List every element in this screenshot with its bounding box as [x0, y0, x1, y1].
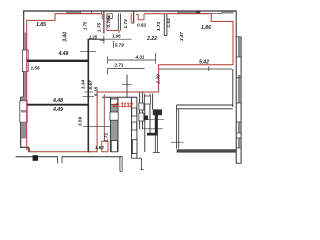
svg-text:5.18: 5.18: [94, 87, 99, 97]
red top line mid: [144, 13, 211, 15]
wire corridor bottom line right: [62, 156, 122, 158]
wire stack A right line: [117, 97, 119, 152]
node right wall gray fill w2: [238, 75, 241, 103]
wire shaft tick x104: [103, 36, 105, 44]
wire corner wall y39: [88, 38, 105, 40]
wire dim 5.79 tick h: [100, 39, 105, 41]
svg-text:4.48: 4.48: [58, 51, 69, 57]
svg-text:1.56: 1.56: [30, 65, 40, 70]
node stack A white box top: [111, 99, 118, 105]
svg-text:1.86: 1.86: [201, 25, 211, 31]
wire shaft mid black pair b: [119, 14, 121, 31]
wire vertical x127: [126, 75, 128, 98]
wire right wall tick y138: [236, 137, 241, 139]
wire tick x127 y84: [122, 83, 132, 85]
node corridor column: [33, 155, 38, 161]
wire tick x88 y92: [84, 91, 93, 93]
wall partition y60 room 1.56: [27, 60, 89, 62]
wire tick x156 y128: [143, 128, 164, 130]
svg-text:1.71: 1.71: [103, 133, 108, 143]
node top wall gray fill A: [66, 11, 81, 13]
wire dim tick x155 y60: [155, 53, 157, 64]
wire dim 4.31 line y60: [108, 59, 156, 61]
wire left outer wall upper: [23, 11, 25, 98]
wire stack A left line: [109, 97, 111, 152]
svg-text:3.34: 3.34: [80, 80, 85, 90]
wire dim line 1.96: [104, 38, 131, 40]
red wall 5.42: [29, 65, 233, 152]
wall room left double x177: [177, 109, 179, 149]
node stack B box 3: [132, 140, 137, 154]
wire right inner vertical x233: [232, 69, 234, 107]
door jamb A white box: [111, 141, 117, 152]
node left wall gray fill B: [24, 72, 26, 98]
wire right wall tick y37: [236, 36, 241, 38]
node stack B box 1: [132, 108, 137, 116]
red shaft notch: [107, 14, 119, 33]
red shaft stub: [101, 14, 103, 20]
wall thick vertical x156: [155, 115, 158, 133]
svg-text:1.73: 1.73: [156, 22, 161, 32]
wire right wall tick y103: [236, 102, 241, 104]
wire black line below 5.42 wall: [159, 68, 232, 70]
node right wall gray fill w3: [238, 122, 241, 133]
wire shaft left black vertical: [103, 11, 105, 34]
node dark square duct: [144, 116, 149, 121]
wire bath mid vertical x152: [152, 94, 154, 110]
svg-text:1.52: 1.52: [95, 145, 104, 150]
wire tick x177 y142: [171, 141, 184, 143]
svg-text:1.53: 1.53: [166, 18, 171, 28]
wire dim tick x107 y60: [107, 57, 109, 64]
wire shaft right black vertical: [133, 11, 135, 23]
wall duct stack C left: [139, 92, 141, 129]
wall thick blob: [153, 109, 162, 115]
wire right wall tick y122: [236, 121, 241, 123]
wall partition y104 room 4.49: [27, 104, 89, 106]
wire right outer bay wall: [240, 37, 242, 164]
svg-text:2.09: 2.09: [156, 74, 161, 85]
wire dim 4.48 line: [80, 50, 96, 52]
red bath partition vertical: [103, 94, 105, 141]
wall duct stack B left: [131, 97, 133, 158]
svg-text:3.44: 3.44: [62, 32, 68, 42]
wall bottom right thick: [177, 149, 236, 152]
wire loggia glazing mullion: [208, 66, 210, 71]
svg-text:0.79: 0.79: [106, 18, 111, 28]
window left W2: [20, 101, 27, 122]
wire top outer wall: [23, 10, 237, 12]
wire tick x88 y96: [83, 95, 95, 97]
svg-text:4.48: 4.48: [52, 98, 63, 104]
red door box bath: [102, 141, 108, 152]
node top wall gray fill C: [222, 11, 234, 13]
wall duct stack C right: [142, 92, 144, 129]
wall duct stack D right: [149, 94, 151, 133]
node top wall pier dark: [196, 11, 200, 14]
wire right wall tick y133: [236, 132, 241, 134]
wire shaft mid black pair a: [117, 14, 119, 31]
wall lift shaft x142: [140, 158, 143, 169]
svg-text:2.22: 2.22: [146, 36, 157, 42]
svg-text:5.42: 5.42: [199, 59, 209, 65]
wall stub top middle x165: [164, 14, 167, 36]
wire corridor jamb a: [57, 156, 59, 163]
wire left outer wall lower: [20, 97, 22, 148]
svg-text:6.67: 6.67: [88, 80, 93, 90]
wall room top y105/109: [177, 105, 233, 109]
red top-right step: [211, 14, 233, 65]
wire tick y126: [83, 125, 112, 127]
window top W4 pane: [92, 11, 102, 13]
svg-text:3.59: 3.59: [78, 117, 83, 127]
red top-left step: [26, 14, 102, 21]
wall duct stack B right: [136, 97, 138, 158]
svg-text:1.85: 1.85: [36, 22, 46, 28]
wall thick horizontal y134: [147, 133, 158, 136]
red bottom-left step: [26, 149, 29, 152]
node stack D box 1: [144, 96, 150, 104]
node shaft duct dot: [108, 16, 110, 18]
wire dim 2.71 line y68.5: [108, 69, 145, 75]
wire right wall tick y148: [236, 147, 241, 149]
window left W1: [22, 50, 28, 72]
node shaft duct box: [107, 14, 113, 19]
wire shaft close y23: [131, 22, 134, 24]
wire bath top wall y97: [102, 96, 137, 98]
wall duct stack D left: [144, 94, 146, 152]
wire corridor jamb b: [61, 156, 63, 163]
svg-text:1.25: 1.25: [89, 35, 98, 40]
wire right wall tick y77: [236, 77, 241, 79]
node left wall gray fill A: [24, 33, 26, 51]
wall lift shaft left x120: [120, 156, 122, 171]
node top wall gray fill B: [177, 11, 196, 13]
node stack B box 2: [132, 122, 137, 130]
wire right wall bottom close: [236, 162, 242, 164]
svg-text:1.73: 1.73: [123, 19, 128, 29]
wire right inner wall: [235, 11, 237, 164]
svg-text:4.31: 4.31: [135, 55, 145, 60]
node left wall gray fill D: [21, 122, 26, 138]
red apartment boundary left: [26, 20, 28, 149]
wire wall x156 lower: [155, 136, 157, 153]
wire corridor bottom line left: [16, 156, 58, 158]
svg-text:1.96: 1.96: [112, 34, 121, 39]
wall duct stack A gray band: [111, 97, 118, 152]
red shaft right vertical: [130, 13, 132, 23]
svg-text:2.71: 2.71: [114, 63, 124, 68]
node right wall gray fill w1: [238, 37, 241, 57]
window top W5 pane: [200, 11, 222, 13]
node right wall gray fill w4: [238, 138, 241, 148]
node stack A white box 1: [110, 112, 118, 120]
window top W3 pane: [81, 11, 92, 13]
wall interior vertical x88: [87, 39, 89, 152]
wire foot x156: [153, 151, 160, 153]
red notch box 0.82: [137, 14, 144, 20]
svg-text:0.82: 0.82: [137, 22, 147, 27]
svg-text:3.47: 3.47: [179, 32, 184, 41]
wire tick x156 y119.5: [148, 119, 164, 121]
node window W2 mullion: [21, 110, 26, 113]
node stack C box 1: [139, 103, 144, 110]
wire lift shaft bottom h: [132, 157, 142, 159]
wire left wall jog: [21, 96, 24, 98]
wire bottom-left step: [20, 147, 29, 152]
svg-text:5.79: 5.79: [115, 42, 124, 47]
svg-text:4.49: 4.49: [52, 107, 63, 113]
wire right wall tick y57: [236, 56, 241, 58]
svg-text:1.75: 1.75: [83, 21, 88, 30]
node left wall gray fill C: [21, 97, 26, 101]
svg-text:1.75: 1.75: [96, 23, 101, 33]
svg-text:±0.1132: ±0.1132: [112, 102, 133, 109]
node stack C box 2: [139, 113, 144, 121]
